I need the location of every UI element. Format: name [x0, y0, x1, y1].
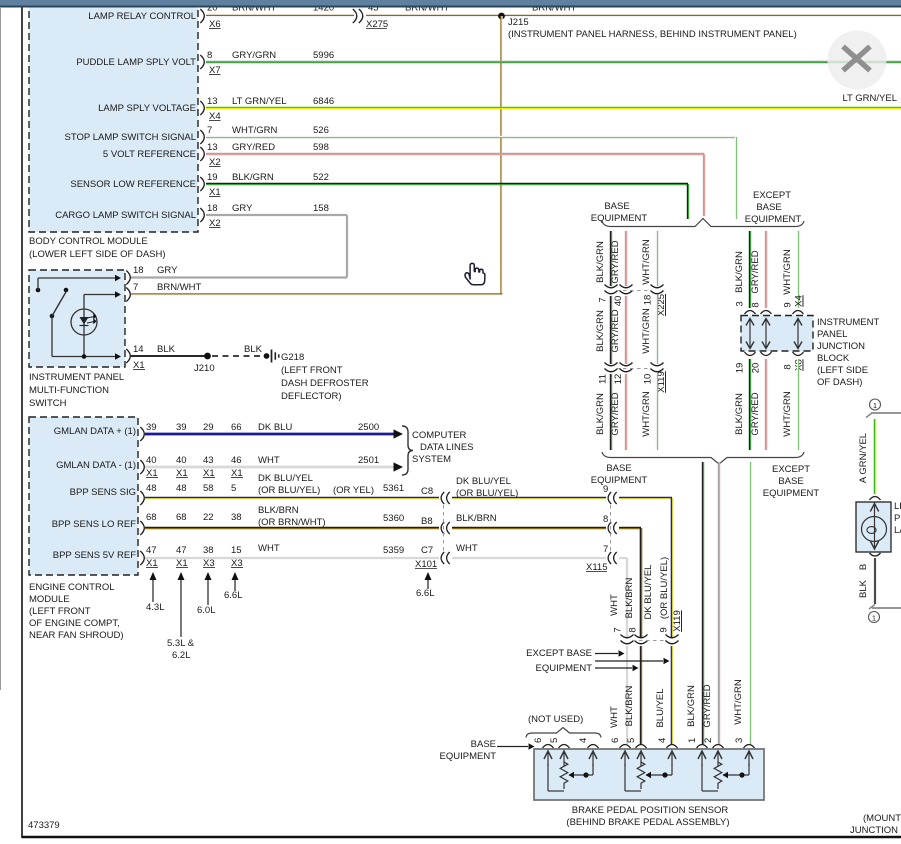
- svg-text:BLK: BLK: [244, 344, 263, 355]
- svg-text:BASE: BASE: [471, 739, 496, 750]
- inline connector C7: [441, 552, 444, 564]
- wire BLK/GRN base-equipment segment 2: [609, 296, 611, 364]
- sensor connector cavity at x=718: [713, 745, 724, 749]
- svg-text:(OR YEL): (OR YEL): [333, 485, 374, 496]
- svg-text:EXCEPT: EXCEPT: [772, 464, 810, 475]
- svg-text:(LEFT SIDE: (LEFT SIDE: [817, 365, 868, 376]
- wire WHT to corner: [619, 557, 627, 559]
- svg-text:4: 4: [657, 738, 668, 743]
- svg-text:A GRN/YEL: A GRN/YEL: [858, 433, 869, 483]
- svg-text:(NOT USED): (NOT USED): [528, 714, 583, 725]
- svg-text:JUNCTION BLOCK): JUNCTION BLOCK): [850, 825, 901, 836]
- svg-text:WHT/GRN: WHT/GRN: [641, 391, 652, 437]
- svg-text:BLK/GRN: BLK/GRN: [232, 172, 274, 183]
- sheet bottom border: [22, 836, 901, 839]
- body control module box: [29, 0, 198, 232]
- svg-text:WHT: WHT: [609, 594, 620, 616]
- svg-text:BLK/GRN: BLK/GRN: [595, 310, 606, 352]
- sensor connector cavity at x=749: [744, 745, 755, 749]
- wire BLK/BRN vertical: [639, 528, 641, 637]
- svg-text:GRY/GRN: GRY/GRN: [232, 50, 276, 61]
- svg-text:ENGINE CONTROL: ENGINE CONTROL: [29, 582, 115, 593]
- svg-text:J215: J215: [508, 17, 529, 28]
- wire WHT to X115 pin 7: [452, 557, 606, 559]
- switch pin 18 GRY: [126, 271, 130, 285]
- svg-text:522: 522: [313, 172, 329, 183]
- wire WHT/GRN except-base segment 2: [796, 359, 798, 450]
- wire DK BLU 2500: [145, 433, 394, 436]
- svg-text:5360: 5360: [383, 513, 404, 524]
- splice J215: [498, 13, 505, 20]
- svg-text:PLATE: PLATE: [894, 513, 901, 524]
- wire GRY/RED except-base segment 2: [764, 359, 766, 450]
- svg-text:8: 8: [603, 514, 608, 525]
- svg-text:EQUIPMENT: EQUIPMENT: [591, 213, 648, 224]
- svg-text:GRY: GRY: [232, 203, 253, 214]
- svg-text:40: 40: [176, 455, 187, 466]
- svg-text:68: 68: [146, 512, 157, 523]
- svg-text:18: 18: [207, 203, 218, 214]
- svg-text:NEAR FAN SHROUD): NEAR FAN SHROUD): [29, 630, 123, 641]
- svg-text:WHT/GRN: WHT/GRN: [232, 125, 278, 136]
- svg-text:5: 5: [626, 738, 637, 743]
- wire WHT/GRN base-equipment segment 3: [655, 374, 657, 450]
- splice J210: [204, 353, 211, 360]
- svg-text:12: 12: [613, 374, 624, 385]
- wire WHT/GRN except-base segment 1: [796, 231, 798, 308]
- wire BLK to J210: [131, 355, 205, 357]
- svg-text:48: 48: [146, 483, 157, 494]
- svg-text:1: 1: [687, 738, 698, 743]
- svg-text:LAMP: LAMP: [894, 525, 901, 536]
- svg-text:19: 19: [735, 363, 746, 374]
- engine variant arrow 5.3L & 6.2L: [180, 578, 182, 637]
- svg-text:BLK/BRN: BLK/BRN: [456, 513, 497, 524]
- sensor connector cavity at x=672: [667, 745, 678, 749]
- svg-text:13: 13: [207, 142, 218, 153]
- svg-text:EXCEPT BASE: EXCEPT BASE: [526, 648, 592, 659]
- instrument panel multi-function switch box: [29, 270, 125, 367]
- svg-text:MULTI-FUNCTION: MULTI-FUNCTION: [29, 385, 109, 396]
- svg-text:(LOWER LEFT SIDE OF DASH): (LOWER LEFT SIDE OF DASH): [29, 249, 166, 260]
- engine variant arrow 6.6L: [234, 578, 236, 591]
- sensor connector cavity at x=702: [697, 745, 708, 749]
- inline connector C8/X101: [441, 492, 444, 504]
- sensor pin arrow at x=702: [701, 752, 703, 766]
- svg-text:EQUIPMENT: EQUIPMENT: [763, 488, 820, 499]
- pointer arrow to WHT wire: [595, 653, 618, 655]
- wire WHT 5359: [145, 557, 439, 559]
- svg-text:BPP SENS 5V REF: BPP SENS 5V REF: [53, 550, 136, 561]
- svg-text:CARGO LAMP SWITCH SIGNAL: CARGO LAMP SWITCH SIGNAL: [55, 210, 196, 221]
- wire GRY/GRN 5996: [206, 60, 901, 62]
- svg-text:(LEFT FRONT: (LEFT FRONT: [281, 365, 343, 376]
- svg-text:DATA LINES: DATA LINES: [420, 442, 474, 453]
- svg-text:8: 8: [751, 302, 762, 307]
- off-page reference 1 bottom: [869, 605, 875, 610]
- svg-text:14: 14: [133, 344, 144, 355]
- svg-text:39: 39: [146, 422, 157, 433]
- svg-text:15: 15: [231, 545, 242, 556]
- svg-text:WHT: WHT: [258, 455, 280, 466]
- svg-text:MODULE: MODULE: [29, 594, 70, 605]
- wire GRY 158: [206, 214, 347, 216]
- svg-text:J210: J210: [194, 363, 215, 374]
- switch common wire: [51, 316, 53, 357]
- svg-text:2: 2: [703, 738, 714, 743]
- svg-text:BASE: BASE: [604, 201, 629, 212]
- svg-text:SWITCH: SWITCH: [29, 398, 67, 409]
- computer data lines brace: [402, 426, 413, 475]
- svg-text:DK BLU/YEL: DK BLU/YEL: [258, 473, 313, 484]
- svg-text:DK BLU/YEL: DK BLU/YEL: [456, 476, 511, 487]
- svg-text:4.3L: 4.3L: [146, 602, 165, 613]
- wire GRY/RED base-equipment segment 2: [624, 296, 626, 364]
- svg-text:OF ENGINE COMPT,: OF ENGINE COMPT,: [29, 618, 120, 629]
- svg-text:WHT/GRN: WHT/GRN: [641, 239, 652, 285]
- sensor pin arrow at x=548: [547, 752, 549, 766]
- svg-text:BLK/BRN: BLK/BRN: [624, 578, 635, 619]
- svg-text:47: 47: [146, 545, 157, 556]
- switch contact node B: [64, 288, 69, 293]
- svg-text:BASE: BASE: [756, 202, 781, 213]
- svg-text:OF DASH): OF DASH): [817, 377, 862, 388]
- svg-text:JUNCTION: JUNCTION: [817, 341, 865, 352]
- svg-text:DEFLECTOR): DEFLECTOR): [281, 391, 342, 402]
- wire BLK/BRN to X115 pin 8: [452, 526, 606, 528]
- wire LT GRN/YEL 6846: [206, 106, 901, 108]
- wire BLK/BRN vertical to X119: [639, 528, 641, 637]
- sensor wiper 1: [592, 764, 594, 775]
- svg-text:68: 68: [176, 512, 187, 523]
- switch lever: [50, 314, 55, 319]
- sensor connector cavity at x=548: [543, 745, 554, 749]
- svg-text:8: 8: [783, 364, 794, 369]
- svg-text:BLK/GRN: BLK/GRN: [595, 393, 606, 435]
- engine control module box: [29, 417, 138, 575]
- svg-text:158: 158: [313, 203, 329, 214]
- svg-text:29: 29: [203, 422, 214, 433]
- svg-text:EXCEPT: EXCEPT: [753, 190, 791, 201]
- svg-text:(OR BRN/WHT): (OR BRN/WHT): [258, 517, 326, 528]
- svg-text:(INSTRUMENT PANEL HARNESS, BEH: (INSTRUMENT PANEL HARNESS, BEHIND INSTRU…: [508, 29, 797, 40]
- svg-text:6: 6: [533, 738, 544, 743]
- junction block pass-through arrow (GRY/RED): [765, 320, 767, 347]
- svg-text:PUDDLE LAMP SPLY VOLT: PUDDLE LAMP SPLY VOLT: [76, 57, 196, 68]
- svg-text:GRY/RED: GRY/RED: [702, 684, 713, 727]
- svg-text:526: 526: [313, 125, 329, 136]
- svg-text:SENSOR LOW REFERENCE: SENSOR LOW REFERENCE: [70, 179, 196, 190]
- top split brace: [602, 219, 804, 227]
- svg-text:5.3L &: 5.3L &: [167, 638, 195, 649]
- svg-text:7: 7: [207, 125, 212, 136]
- wire BLK/BRN 5360: [145, 526, 439, 528]
- sensor wiper 3: [748, 764, 750, 775]
- engine variant arrow 6.0L: [207, 578, 209, 605]
- svg-text:7: 7: [603, 544, 608, 555]
- wire GRY from switch: [131, 276, 347, 278]
- wire GRY/RED 598 vertical: [702, 154, 704, 216]
- svg-text:5: 5: [231, 483, 236, 494]
- wire BRN/WHT after X275: [366, 14, 901, 16]
- sensor wiper 2: [671, 764, 673, 775]
- svg-text:6: 6: [610, 738, 621, 743]
- switch wire to cargo lamp pin: [37, 278, 39, 290]
- svg-text:BPP SENS LO REF: BPP SENS LO REF: [52, 519, 136, 530]
- svg-text:6.2L: 6.2L: [172, 650, 191, 661]
- svg-text:(LEFT FRONT: (LEFT FRONT: [29, 606, 91, 617]
- svg-text:GRY/RED: GRY/RED: [750, 392, 761, 435]
- svg-text:DASH DEFROSTER: DASH DEFROSTER: [281, 378, 369, 389]
- sensor potentiometer 1: [547, 764, 549, 791]
- wire BLU/YEL to sensor: [670, 646, 672, 744]
- wire BLK/GRN 522 vertical: [686, 184, 688, 219]
- svg-text:WHT/GRN: WHT/GRN: [782, 391, 793, 437]
- svg-text:(OR BLU/YEL): (OR BLU/YEL): [659, 557, 670, 619]
- svg-text:3: 3: [735, 301, 746, 306]
- license plate lamp symbol: [874, 503, 876, 550]
- svg-text:BLU/YEL: BLU/YEL: [655, 688, 666, 727]
- connector group dashed link X115: [610, 505, 612, 552]
- svg-text:EQUIPMENT: EQUIPMENT: [745, 214, 802, 225]
- sensor pin arrow at x=641: [640, 752, 642, 766]
- svg-text:BLK: BLK: [858, 579, 869, 598]
- wire WHT 2501: [145, 466, 394, 469]
- svg-text:BLK/GRN: BLK/GRN: [734, 393, 745, 435]
- sensor pin arrow at x=749: [748, 752, 750, 766]
- wire WHT/GRN 526: [206, 135, 736, 137]
- switch pin 7 BRN/WHT: [126, 288, 130, 302]
- sheet left border: [21, 7, 23, 838]
- svg-text:G218: G218: [281, 352, 304, 363]
- svg-text:GRY/RED: GRY/RED: [750, 250, 761, 293]
- svg-text:6846: 6846: [313, 96, 334, 107]
- wire BLK/GRN except-base segment 2: [748, 359, 750, 450]
- svg-text:7: 7: [598, 297, 609, 302]
- svg-text:BASE: BASE: [606, 463, 631, 474]
- inline connector X275: [353, 9, 357, 23]
- svg-text:GMLAN DATA + (1): GMLAN DATA + (1): [54, 426, 136, 437]
- sensor connector cavity at x=641: [636, 745, 647, 749]
- instrument panel junction block: [741, 316, 813, 352]
- wire BLK/BRN to corner: [619, 526, 641, 528]
- svg-text:1: 1: [872, 614, 876, 623]
- pointer arrow to BLU/YEL wire: [595, 660, 663, 662]
- wire BLK/GRN base-equipment segment 3: [609, 374, 611, 450]
- svg-text:INSTRUMENT: INSTRUMENT: [817, 317, 879, 328]
- svg-text:598: 598: [313, 142, 329, 153]
- wire GRY/RED lower vertical: [717, 462, 719, 744]
- svg-text:EQUIPMENT: EQUIPMENT: [536, 663, 593, 674]
- inline connector B8: [441, 522, 444, 534]
- sensor potentiometer 2: [624, 764, 626, 791]
- wire WHT vertical to X119: [626, 558, 628, 637]
- svg-text:40: 40: [146, 455, 157, 466]
- switch illumination lamp: [71, 309, 97, 335]
- connector X119 lower: [621, 635, 634, 638]
- wire BLK to reference: [874, 558, 876, 604]
- svg-text:2501: 2501: [358, 455, 379, 466]
- svg-text:10: 10: [643, 374, 654, 385]
- wire BLK/GRN lower vertical: [701, 462, 703, 744]
- svg-text:1: 1: [873, 401, 877, 410]
- sensor pin arrow at x=564: [563, 752, 565, 766]
- svg-text:BLOCK: BLOCK: [817, 353, 850, 364]
- switch lamp feed wire: [84, 294, 115, 296]
- svg-text:STOP LAMP SWITCH SIGNAL: STOP LAMP SWITCH SIGNAL: [65, 132, 196, 143]
- wire GRY/RED except-base segment 1: [764, 231, 766, 308]
- svg-text:LAMP RELAY CONTROL: LAMP RELAY CONTROL: [88, 11, 196, 22]
- bottom merge brace: [602, 452, 804, 464]
- svg-text:INSTRUMENT PANEL: INSTRUMENT PANEL: [29, 372, 124, 383]
- svg-text:8: 8: [628, 627, 639, 632]
- svg-text:PANEL: PANEL: [817, 329, 847, 340]
- wire WHT/GRN base-equipment segment 1: [655, 231, 657, 286]
- wire BLK/GRN 522: [206, 182, 688, 184]
- svg-text:WHT/GRN: WHT/GRN: [733, 679, 744, 725]
- svg-text:6.0L: 6.0L: [197, 605, 216, 616]
- svg-text:COMPUTER: COMPUTER: [412, 430, 467, 441]
- pointer arrow to sensor: [497, 746, 528, 748]
- connector group dashed link C8-B8-C7: [443, 505, 445, 552]
- svg-text:DK BLU: DK BLU: [258, 422, 292, 433]
- svg-text:9: 9: [659, 627, 670, 632]
- wire GRY 158 vertical: [346, 215, 348, 278]
- engine variant arrow 4.3L: [152, 578, 154, 602]
- sensor connector cavity at x=564: [559, 745, 570, 749]
- wire DK BLU/YEL vertical: [670, 498, 672, 637]
- svg-text:BLK/GRN: BLK/GRN: [734, 251, 745, 293]
- svg-text:6.6L: 6.6L: [416, 588, 435, 599]
- svg-text:EQUIPMENT: EQUIPMENT: [591, 475, 648, 486]
- lamp connector arc top: [870, 497, 881, 501]
- ground G218: [264, 353, 270, 359]
- sensor pin arrow at x=672: [671, 752, 673, 766]
- svg-text:BASE: BASE: [778, 476, 803, 487]
- svg-text:38: 38: [231, 512, 242, 523]
- svg-text:GMLAN DATA - (1): GMLAN DATA - (1): [56, 460, 136, 471]
- wire GRY/RED base-equipment segment 3: [624, 374, 626, 450]
- svg-text:WHT: WHT: [258, 543, 280, 554]
- svg-text:(BEHIND BRAKE PEDAL ASSEMBLY): (BEHIND BRAKE PEDAL ASSEMBLY): [566, 817, 729, 828]
- left viewport edge: [0, 7, 2, 690]
- svg-text:GRY/RED: GRY/RED: [610, 240, 621, 283]
- svg-text:43: 43: [203, 455, 214, 466]
- svg-text:22: 22: [203, 512, 214, 523]
- brake pedal position sensor box: [534, 749, 764, 800]
- wire WHT to sensor: [626, 646, 628, 744]
- wire GRY/RED base-equipment segment 1: [624, 231, 626, 286]
- wire GRY/RED 598: [206, 152, 704, 154]
- top toolbar: [0, 0, 901, 6]
- hand cursor: [465, 263, 485, 284]
- svg-text:BODY CONTROL MODULE: BODY CONTROL MODULE: [29, 236, 148, 247]
- wire WHT/GRN base-equipment segment 2: [655, 296, 657, 364]
- svg-text:BLK/GRN: BLK/GRN: [686, 685, 697, 727]
- wire BRN/WHT vertical from J215: [500, 16, 502, 295]
- wire WHT/GRN lower vertical: [748, 462, 750, 744]
- svg-text:4: 4: [578, 738, 589, 743]
- wire BLK/GRN base-equipment segment 1: [609, 231, 611, 286]
- svg-text:WHT/GRN: WHT/GRN: [782, 249, 793, 295]
- svg-text:19: 19: [207, 172, 218, 183]
- svg-text:18: 18: [133, 265, 144, 276]
- wire DK BLU/YEL to corner: [619, 496, 672, 498]
- svg-text:BLK/GRN: BLK/GRN: [595, 241, 606, 283]
- close button: [828, 31, 887, 90]
- wire BLK dashed to ground: [212, 355, 263, 357]
- svg-text:DK BLU/YEL: DK BLU/YEL: [643, 565, 654, 620]
- svg-text:473379: 473379: [28, 820, 60, 831]
- sensor connector cavity at x=625: [620, 745, 631, 749]
- svg-text:B: B: [858, 564, 869, 570]
- svg-text:40: 40: [613, 296, 624, 307]
- svg-text:3: 3: [734, 738, 745, 743]
- svg-text:BLK: BLK: [157, 344, 176, 355]
- svg-text:39: 39: [176, 422, 187, 433]
- svg-text:5359: 5359: [383, 545, 404, 556]
- svg-text:58: 58: [203, 483, 214, 494]
- svg-text:7: 7: [133, 282, 138, 293]
- svg-text:GRY: GRY: [157, 265, 178, 276]
- svg-text:X4: X4: [794, 295, 805, 307]
- svg-text:EQUIPMENT: EQUIPMENT: [440, 751, 497, 762]
- svg-text:C7: C7: [421, 545, 433, 556]
- license plate lamp box: [856, 502, 891, 552]
- svg-text:18: 18: [643, 295, 654, 306]
- svg-text:2500: 2500: [358, 422, 379, 433]
- sensor potentiometer 3: [701, 764, 703, 791]
- svg-text:BLK/BRN: BLK/BRN: [258, 505, 299, 516]
- svg-text:BPP SENS SIG: BPP SENS SIG: [70, 487, 136, 498]
- svg-text:BRN/WHT: BRN/WHT: [157, 282, 202, 293]
- svg-text:BRAKE PEDAL POSITION SENSOR: BRAKE PEDAL POSITION SENSOR: [572, 805, 729, 816]
- svg-text:LT GRN/YEL: LT GRN/YEL: [232, 96, 287, 107]
- svg-text:LT GRN/YEL: LT GRN/YEL: [842, 93, 897, 104]
- svg-text:GRY/RED: GRY/RED: [610, 309, 621, 352]
- svg-text:SYSTEM: SYSTEM: [412, 454, 451, 465]
- svg-text:LAMP SPLY VOLTAGE: LAMP SPLY VOLTAGE: [98, 103, 196, 114]
- svg-text:WHT: WHT: [609, 706, 620, 728]
- connector X119 upper: [605, 363, 618, 366]
- sensor pin arrow at x=625: [624, 752, 626, 766]
- svg-text:LICENSE: LICENSE: [894, 501, 901, 512]
- svg-text:38: 38: [203, 545, 214, 556]
- off-page reference 1 top: [870, 399, 881, 410]
- sensor pin arrow at x=593: [592, 752, 594, 766]
- junction block pass-through arrow (WHT/GRN): [797, 320, 799, 347]
- wire WHT/GRN 526 vertical: [734, 137, 736, 219]
- svg-text:6.6L: 6.6L: [224, 590, 243, 601]
- connector X225: [605, 285, 618, 288]
- sensor connector cavity at x=593: [588, 745, 599, 749]
- wire DK BLU/YEL 5361: [145, 496, 439, 498]
- svg-text:13: 13: [207, 96, 218, 107]
- wire BRN/WHT 1420 (lamp relay control): [206, 14, 354, 16]
- svg-text:7: 7: [613, 627, 624, 632]
- pointer arrow to BLK/BRN wire: [595, 667, 632, 669]
- svg-text:GRY/RED: GRY/RED: [610, 392, 621, 435]
- svg-text:9: 9: [783, 302, 794, 307]
- svg-text:66: 66: [231, 422, 242, 433]
- wire BLK/GRN except-base segment 1: [748, 231, 750, 308]
- connector X8 pins 19 20 8: [745, 352, 756, 356]
- svg-text:X119: X119: [672, 610, 683, 631]
- switch contact node A: [36, 288, 41, 293]
- svg-text:(OR BLU/YEL): (OR BLU/YEL): [456, 488, 518, 499]
- junction block pass-through arrow (BLK/GRN): [749, 320, 751, 347]
- svg-text:11: 11: [598, 374, 609, 384]
